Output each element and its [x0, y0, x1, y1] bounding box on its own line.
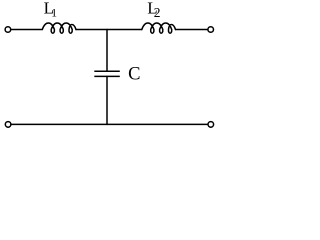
wire top-middle: [76, 29, 142, 31]
wire capacitor-bottom: [106, 76, 108, 124]
terminal bottom-right: [208, 122, 214, 128]
capacitor C bottom plate: [94, 75, 120, 77]
terminal top-left: [5, 27, 11, 33]
svg-text:C: C: [128, 65, 140, 85]
terminal bottom-left: [5, 122, 11, 128]
wire bottom rail: [11, 123, 208, 125]
svg-text:2: 2: [154, 5, 161, 20]
wire top-left: [11, 29, 42, 31]
wire top-right: [176, 29, 208, 31]
wire capacitor-top (node between L1 and L2 down to C): [106, 30, 108, 72]
inductor L1: [42, 23, 76, 33]
inductor L2: [142, 23, 176, 33]
capacitor C top plate: [94, 70, 120, 72]
svg-text:1: 1: [51, 6, 57, 20]
terminal top-right: [208, 27, 214, 33]
